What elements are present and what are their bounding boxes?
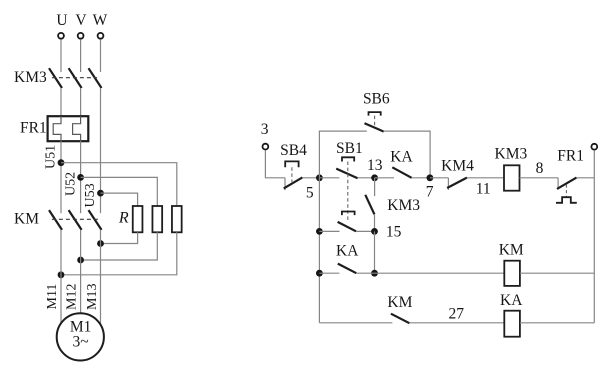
wire coil KA to right rail [520,322,594,324]
junction phase U resistor return [58,271,65,278]
pushbutton SB1 actuator link (dashed, to lower contact) [347,162,349,222]
wire KA contact to node 7 [412,177,430,179]
wire V terminal to KM3 [80,39,82,72]
junction rung 2 centre [371,270,378,277]
contact KM pole U (blade) [49,210,62,230]
wire U KM to motor [60,230,62,324]
junction left rail row 15 [316,228,323,235]
svg-text:SB1: SB1 [336,140,363,157]
pushbutton SB4 actuator cap [285,161,298,167]
svg-text:8: 8 [536,160,544,177]
wire resistor 3 return to phase U [61,232,177,274]
wire left rail to SB1 lower contact [319,230,339,232]
node U53 [97,190,104,197]
wire V KM3 to FR1 [80,88,82,116]
svg-text:KM: KM [499,242,524,259]
wire W terminal to KM3 [100,39,102,72]
wire resistor 1 return to phase W [101,232,138,243]
svg-text:FR1: FR1 [557,148,584,165]
resistor R element 2 [152,206,162,232]
contact KM3 pole U (blade) [49,68,62,88]
svg-text:KA: KA [500,292,523,309]
wire SB1 lower contact to node 15 [356,230,375,232]
contact KM4 blade [447,178,467,188]
coil KA [504,311,520,337]
wire node 13 to KA contact [375,177,394,179]
svg-text:W: W [93,12,108,29]
svg-text:R: R [118,210,129,227]
terminal right rail top [591,144,597,150]
pushbutton SB6 actuator link (dashed) [374,116,376,127]
terminal W [98,33,104,39]
wire node 13 down to KM3 contact [374,178,376,196]
svg-text:FR1: FR1 [20,120,47,137]
coil KM [504,261,520,286]
motor M1 [57,313,104,360]
terminal U [58,33,64,39]
wire SB6 to node 7 [384,131,430,178]
wire KA contact to coil KM [356,272,504,274]
wire node 7 to KM4 [430,177,449,179]
pushbutton SB1 actuator cap [342,157,354,161]
wire KM4 to coil KM3 [467,177,504,179]
svg-text:SB6: SB6 [363,91,390,108]
pushbutton SB4 (NC) fixed contact tick [284,178,286,190]
svg-text:M11: M11 [45,284,60,310]
contact KM3 pole V (blade) [69,68,82,88]
svg-text:KM3: KM3 [495,146,528,163]
thermal overload FR1 heater box [48,116,89,141]
svg-text:KM3: KM3 [14,69,47,86]
node U51 [58,159,65,166]
pushbutton SB1 (NO) main blade [336,169,357,179]
wire U53 to resistor 1 [101,193,138,206]
KM mechanical link (dashed) [52,218,98,220]
resistor R element 3 [172,206,182,232]
pushbutton SB6 (NO) blade [365,123,384,131]
contact KM pole V (blade) [69,210,82,230]
KM3 mechanical link (dashed) [52,77,97,79]
wire U terminal to KM3 [60,39,62,72]
svg-text:KA: KA [390,149,413,166]
svg-text:KA: KA [336,243,359,260]
terminal V [78,33,84,39]
wire V KM to motor [80,230,82,314]
svg-text:KM3: KM3 [387,197,420,214]
node U52 [77,174,84,181]
svg-text:M12: M12 [65,284,80,310]
contact KM (NO, rung 3) blade [391,314,410,324]
relay contact KA (NO, rung 2) blade [338,264,357,274]
wire U KM3 to FR1 [60,88,62,116]
svg-text:KM4: KM4 [441,158,474,175]
svg-text:U51: U51 [44,145,59,169]
FR1 heater element phase U [53,116,61,141]
thermal contact FR1 blade [557,178,577,189]
svg-text:27: 27 [448,306,464,323]
FR1 trip link (dashed) [565,185,567,197]
node 13 [371,174,378,181]
wire W KM to motor [100,230,102,325]
wire V FR1 to KM [80,141,82,213]
svg-text:V: V [75,12,87,29]
wire U FR1 to KM [60,141,62,213]
wire FR1 contact to right rail [577,177,595,179]
right rail wire [593,150,595,323]
junction left rail rung 2 [316,270,323,277]
svg-text:3~: 3~ [73,334,89,351]
contact KM4 (NC) fixed contact tick [447,178,449,190]
wire U51 to resistor 3 [61,163,177,206]
wire left rail to KA contact (rung 2) [319,272,339,274]
wire coil KM3 to FR1 contact [520,177,559,179]
svg-text:15: 15 [386,224,402,241]
wire node 5 to SB1 [319,177,339,179]
terminal 3 [263,144,269,150]
svg-text:KM: KM [387,294,412,311]
junction phase W resistor return [97,240,104,247]
wire SB4 to node 5 [302,177,319,179]
wire resistor 2 return to phase V [81,232,158,260]
pushbutton SB4 blade [284,177,303,188]
left rail wire (node 5 down) [318,178,320,323]
svg-text:SB4: SB4 [280,142,307,159]
pushbutton SB1 lower actuator cap [342,212,355,216]
wire W KM3 down to KM (bypasses FR1 box) [100,88,102,213]
wire SB1 to node 13 [358,177,375,179]
svg-text:7: 7 [426,184,434,201]
junction phase V resistor return [77,257,84,264]
wire KM3 contact to node 15 [374,214,376,231]
svg-text:U52: U52 [64,172,79,196]
wire KM contact to coil KA [409,322,504,324]
FR1 thermal trip symbol [556,197,577,203]
node 15 [371,228,378,235]
svg-text:KM: KM [14,211,39,228]
pushbutton SB4 actuator link (dashed) [291,167,293,183]
wire left rail to KM contact (rung 3) [319,322,392,324]
resistor R element 1 [133,206,143,232]
svg-text:11: 11 [476,181,491,198]
FR1 heater element phase V [73,116,81,141]
contact KM pole W (blade) [89,210,102,230]
svg-text:5: 5 [306,185,314,202]
coil KM3 [504,165,520,190]
wire node 5 up to SB6 branch [319,131,366,178]
pushbutton SB1 lower contact blade (NO) [338,222,356,231]
relay contact KA (NO, rung 1) blade [392,167,411,178]
wire terminal 3 to SB4 [265,150,285,178]
svg-text:3: 3 [261,121,269,138]
wire U52 to resistor 2 [81,177,158,206]
svg-text:U: U [56,12,67,29]
svg-text:U53: U53 [83,183,98,207]
thermal contact FR1 (NC) fixed contact tick [557,178,559,190]
contact KM3 pole W (blade) [89,68,102,88]
node 7 [427,174,434,181]
pushbutton SB6 actuator cap [369,112,381,116]
svg-text:13: 13 [367,157,383,174]
svg-text:M13: M13 [85,284,100,310]
node 5 [316,174,323,181]
wire coil KM to right rail [520,272,594,274]
wire node 15 down to rung 2 [374,231,376,273]
contact KM3 (NO, vertical) blade [365,195,374,215]
